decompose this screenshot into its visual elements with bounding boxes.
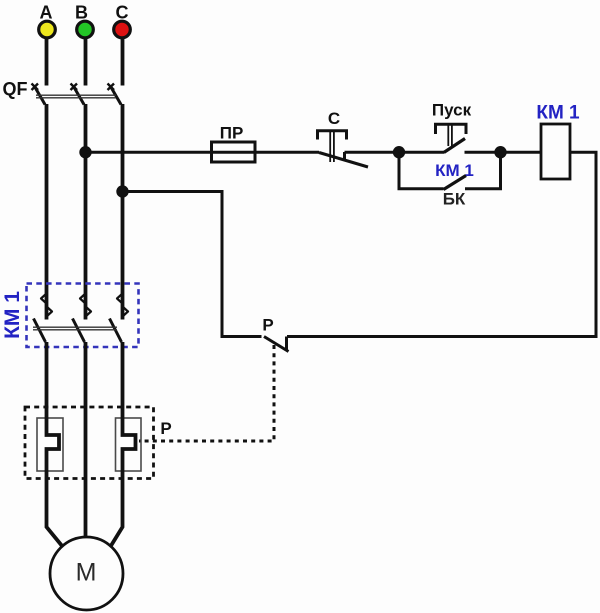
breaker QF linkage bar (double line) <box>36 95 116 98</box>
svg-text:БК: БК <box>443 190 466 209</box>
KM1 main contact pole 2 (chevrons) <box>80 294 91 317</box>
control wire start button to coil <box>465 151 542 154</box>
breaker QF pole 1 (blade with X) <box>32 84 46 105</box>
coil KM1 body <box>541 124 570 179</box>
wire phase A from terminal to QF <box>45 39 49 86</box>
KM1 main contact pole 1 (chevrons) <box>41 294 52 317</box>
wire phase B QF to KM1 contact <box>84 104 88 320</box>
thermal relay contact right fixed tick <box>285 337 288 351</box>
wire phase C through heater 2 to motor <box>111 342 136 547</box>
breaker QF pole 2 (blade with X) <box>71 84 85 105</box>
svg-text:C: C <box>116 3 129 23</box>
return wire from coil right down and across bottom <box>287 152 596 336</box>
wire phase C from terminal to QF <box>121 39 125 86</box>
wire phase B from terminal to QF <box>84 39 88 86</box>
svg-text:КМ 1: КМ 1 <box>536 103 580 124</box>
heater element 1 outline <box>37 418 63 471</box>
KM1 linkage bar (double line) <box>33 327 117 330</box>
stop button C stem (double line) <box>330 132 334 163</box>
heater element 2 outline <box>116 418 142 471</box>
aux contact branch right wire <box>465 152 501 189</box>
KM1 main contact pole 3 (chevrons) <box>117 294 128 317</box>
thermal relay contact blade (NC) <box>264 337 289 352</box>
wire phase B to motor <box>84 342 88 539</box>
breaker QF pole 3 (blade with X) <box>108 84 122 105</box>
stop button C cap <box>318 131 347 140</box>
junction node left of start button <box>393 146 405 158</box>
junction node right of start button <box>494 146 506 158</box>
wire phase C QF to KM1 contact <box>121 104 125 320</box>
svg-text:М: М <box>76 559 97 587</box>
svg-text:ПР: ПР <box>220 124 244 143</box>
aux contact branch left wire <box>399 152 444 189</box>
svg-text:Пуск: Пуск <box>432 101 472 120</box>
svg-text:КМ 1: КМ 1 <box>435 161 474 180</box>
junction node on phase B (control circuit tap) <box>79 146 91 158</box>
svg-text:QF: QF <box>3 79 28 99</box>
motor M circle <box>50 537 123 610</box>
phase terminal A (yellow lamp) <box>39 21 56 38</box>
control wire from B tap through fuse to stop button <box>86 151 320 154</box>
KM1 main contact pole 3 blade <box>110 319 122 343</box>
fuse PR body <box>212 142 256 162</box>
svg-text:КМ 1: КМ 1 <box>1 291 24 339</box>
start button blade (NO) <box>444 139 465 153</box>
aux contact BK blade (NO) <box>444 176 467 190</box>
svg-text:B: B <box>75 3 88 23</box>
svg-text:С: С <box>328 109 340 128</box>
phase terminal C (red lamp) <box>114 21 131 38</box>
wire phase A through heater 1 to motor <box>47 342 63 547</box>
KM1 main contact pole 2 blade <box>73 319 85 343</box>
phase terminal B (green lamp) <box>77 21 94 38</box>
svg-text:Р: Р <box>262 316 273 335</box>
start button cap <box>436 124 467 134</box>
svg-text:Р: Р <box>160 419 171 438</box>
contactor KM1 dashed outline box <box>27 284 139 348</box>
svg-text:A: A <box>40 3 53 23</box>
wire phase A QF to KM1 contact <box>45 104 49 320</box>
junction node on phase C (control circuit return tap) <box>116 185 128 197</box>
stop button C blade (NC) <box>319 153 368 168</box>
control wire stop button to start button <box>345 151 445 154</box>
mechanical link dashed (contact P to heaters) <box>139 345 274 441</box>
return wire from C tap to thermal contact <box>123 192 262 337</box>
KM1 main contact pole 1 blade <box>34 319 46 343</box>
stop button C right fixed contact tick <box>343 152 346 161</box>
start button stem (double line) <box>448 125 452 146</box>
thermal relay dashed box <box>25 407 154 479</box>
